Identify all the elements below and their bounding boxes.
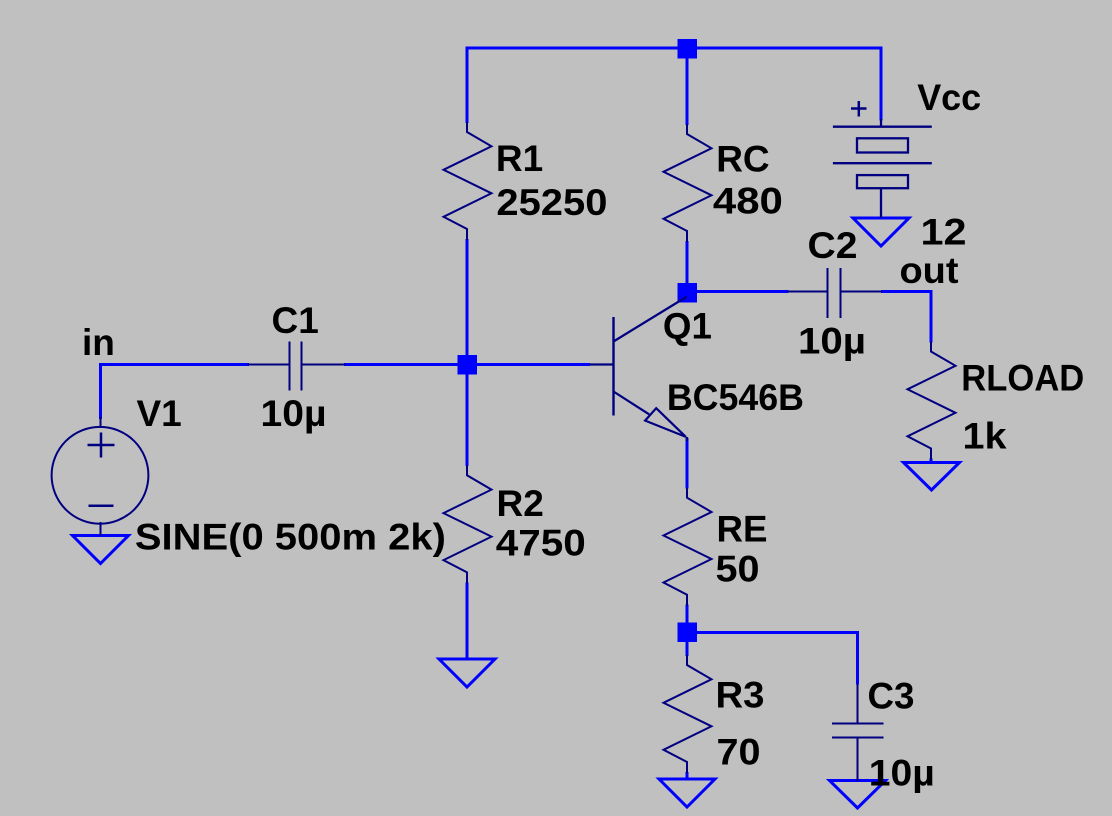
svg-text:480: 480: [713, 181, 783, 222]
svg-text:1k: 1k: [963, 416, 1007, 457]
svg-text:R1: R1: [496, 138, 543, 179]
svg-text:RC: RC: [716, 139, 769, 180]
svg-text:10µ: 10µ: [798, 321, 866, 362]
svg-text:out: out: [900, 250, 959, 291]
svg-text:70: 70: [717, 732, 761, 773]
svg-text:BC546B: BC546B: [667, 377, 804, 418]
svg-text:in: in: [82, 322, 115, 363]
svg-text:12: 12: [921, 212, 967, 253]
svg-text:10µ: 10µ: [261, 393, 327, 434]
svg-text:C1: C1: [272, 300, 319, 341]
svg-text:10µ: 10µ: [869, 753, 935, 794]
svg-text:C3: C3: [868, 676, 915, 717]
svg-text:R3: R3: [716, 675, 765, 716]
svg-text:Vcc: Vcc: [917, 77, 981, 118]
svg-text:R2: R2: [497, 483, 544, 524]
svg-text:Q1: Q1: [663, 306, 712, 347]
svg-text:RE: RE: [717, 509, 768, 550]
svg-text:V1: V1: [137, 393, 182, 434]
svg-text:50: 50: [716, 549, 760, 590]
svg-text:25250: 25250: [496, 182, 607, 223]
svg-text:C2: C2: [808, 225, 858, 266]
svg-text:4750: 4750: [496, 523, 586, 564]
svg-text:SINE(0 500m 2k): SINE(0 500m 2k): [135, 517, 446, 558]
svg-text:RLOAD: RLOAD: [961, 358, 1084, 399]
